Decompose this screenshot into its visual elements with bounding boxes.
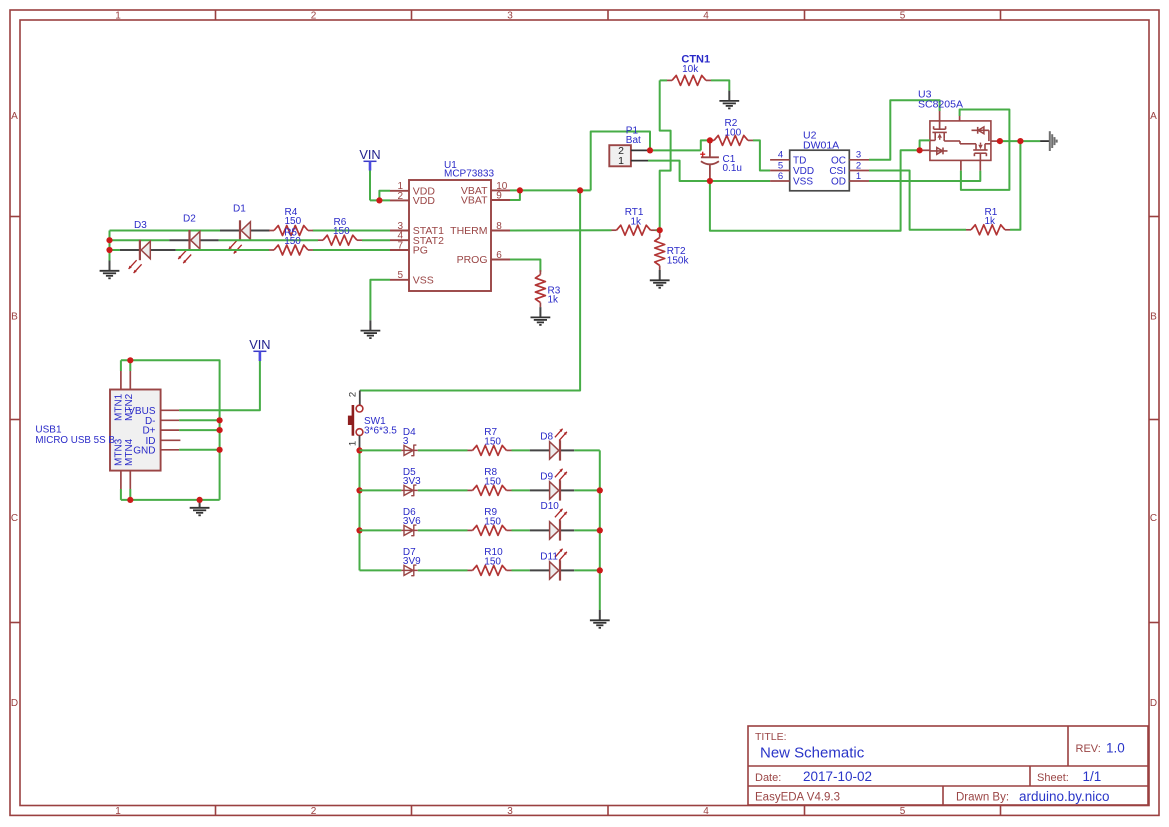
svg-text:MCP73833: MCP73833	[444, 168, 494, 179]
wire row D6 b	[418, 529, 468, 531]
wire VBUS	[179, 361, 260, 410]
svg-text:arduino.by.nico: arduino.by.nico	[1019, 789, 1110, 804]
diode D1 leads	[220, 230, 270, 232]
junction dot U3 out a	[997, 138, 1003, 144]
junction dot VBAT a	[517, 187, 523, 193]
svg-text:A: A	[1150, 111, 1157, 122]
wire row D7 c	[512, 569, 530, 571]
svg-text:D2: D2	[183, 214, 196, 225]
wire CTN1 right	[711, 80, 729, 90]
svg-text:PG: PG	[413, 245, 428, 257]
wire VBAT to SW1	[360, 190, 580, 390]
svg-text:C: C	[1150, 513, 1157, 524]
svg-text:D8: D8	[540, 432, 553, 443]
svg-text:A: A	[11, 111, 18, 122]
svg-text:2017-10-02: 2017-10-02	[803, 769, 872, 784]
wire D+	[179, 429, 220, 431]
wire STAT1 row	[110, 230, 391, 232]
svg-text:1: 1	[856, 171, 861, 182]
diode D2 leads	[169, 239, 218, 241]
resistor CTN1	[667, 75, 711, 85]
wire VIN to U1 VDD	[370, 171, 390, 201]
svg-text:5: 5	[900, 806, 906, 817]
svg-text:2: 2	[397, 191, 403, 202]
wire SW1 rail	[359, 448, 361, 571]
wire row D4 a	[360, 449, 402, 451]
wire CTN1 lead a	[660, 79, 667, 81]
junction dot GND	[217, 447, 223, 453]
diode D6 (zener)	[401, 525, 417, 536]
svg-text:2: 2	[348, 392, 359, 397]
junction dot C1 bottom	[707, 178, 713, 184]
diode D9 leads	[530, 489, 575, 491]
svg-text:B: B	[11, 311, 18, 322]
label R10	[484, 547, 503, 567]
svg-text:5: 5	[397, 270, 403, 281]
wire row D7 b	[418, 569, 468, 571]
wire U3 out	[1000, 140, 1040, 142]
thermistor RT2	[655, 233, 665, 270]
junction dot rail PG	[106, 247, 112, 253]
junction dot VBAT b	[577, 187, 583, 193]
svg-text:150: 150	[284, 236, 301, 247]
svg-text:D3: D3	[134, 220, 147, 231]
diode D8 leads	[530, 449, 575, 451]
wire STAT2 row	[110, 239, 391, 241]
svg-text:150: 150	[333, 226, 350, 237]
svg-text:D11: D11	[540, 552, 558, 563]
svg-text:150k: 150k	[667, 255, 690, 266]
svg-text:PROG: PROG	[457, 254, 488, 266]
svg-text:VIN: VIN	[359, 147, 380, 162]
svg-text:VDD: VDD	[793, 166, 814, 177]
wire row D5 a	[360, 489, 402, 491]
label RT2	[667, 246, 690, 266]
wire U3 top loop	[960, 110, 1010, 190]
svg-text:100: 100	[725, 127, 742, 138]
svg-text:3V6: 3V6	[403, 516, 421, 527]
junction dot R2 left	[707, 137, 713, 143]
diode D10 (LED)	[550, 509, 567, 541]
junction dot rail D6	[356, 527, 362, 533]
svg-text:2: 2	[311, 806, 317, 817]
wire U3 left pins	[920, 140, 930, 150]
ground R3	[531, 307, 551, 325]
label SW1	[364, 416, 397, 436]
ground USB	[190, 500, 210, 515]
diode D8 (LED)	[550, 429, 567, 461]
label D8	[540, 432, 553, 443]
junction dot U3 out b	[1017, 138, 1023, 144]
resistor R9	[468, 525, 512, 535]
junction dot rail D4	[356, 447, 362, 453]
svg-text:7: 7	[397, 240, 403, 251]
ground RT2	[650, 270, 670, 288]
label D5	[403, 467, 421, 487]
label D4	[403, 427, 416, 447]
diode D5 (zener)	[401, 485, 417, 496]
wire PROG	[510, 260, 540, 272]
svg-text:OC: OC	[831, 155, 846, 166]
wire P1.1	[648, 161, 770, 181]
wire D-	[179, 419, 220, 421]
wire USB top	[121, 360, 220, 500]
wire row D6 a	[360, 529, 402, 531]
svg-text:Date:: Date:	[755, 772, 781, 784]
diode D10 leads	[530, 529, 575, 531]
junction dot D-	[217, 417, 223, 423]
wire row D4 c	[512, 449, 530, 451]
svg-text:150: 150	[484, 476, 501, 487]
wire THERM b	[656, 229, 660, 231]
net flag VIN (U1)	[359, 147, 380, 171]
ground U1 VSS	[361, 320, 381, 338]
svg-text:MICRO USB 5S B: MICRO USB 5S B	[35, 435, 115, 446]
svg-text:Bat: Bat	[626, 135, 641, 146]
svg-text:6: 6	[496, 250, 502, 261]
wire CTN1 left	[660, 80, 671, 230]
resistor R8	[468, 485, 512, 495]
label R6	[333, 217, 350, 237]
resistor RT1	[612, 225, 656, 235]
diode D11 leads	[530, 569, 575, 571]
svg-text:1.0: 1.0	[1106, 741, 1125, 756]
wire row D4 b	[418, 449, 468, 451]
wire row D6 c	[512, 529, 530, 531]
junction dot USB gnd	[197, 497, 203, 503]
svg-text:VBAT: VBAT	[461, 195, 488, 207]
svg-text:1/1: 1/1	[1083, 769, 1102, 784]
junction dot VDD	[376, 197, 382, 203]
junction dot U3 left	[917, 147, 923, 153]
IC U2 DW01A	[770, 129, 869, 190]
svg-text:VSS: VSS	[793, 177, 813, 188]
svg-text:B: B	[1150, 311, 1157, 322]
wire right LED rail	[599, 450, 601, 610]
label RT1	[625, 207, 644, 227]
svg-text:SC8205A: SC8205A	[918, 99, 963, 111]
label D10	[541, 501, 560, 512]
wire USB bottom	[121, 489, 220, 500]
resistor R2	[709, 135, 753, 145]
diode D7 (zener)	[401, 565, 417, 576]
wire row D5 d	[574, 489, 600, 491]
wire row D7 d	[574, 569, 600, 571]
wire row D6 d	[574, 529, 600, 531]
diode D3 (LED)	[129, 240, 151, 273]
svg-text:VSS: VSS	[413, 274, 434, 286]
svg-text:8: 8	[496, 221, 502, 232]
svg-text:1: 1	[618, 155, 624, 167]
svg-text:3*6*3.5: 3*6*3.5	[364, 425, 397, 436]
svg-text:TITLE:: TITLE:	[755, 731, 787, 743]
svg-text:5: 5	[900, 11, 906, 22]
svg-text:D: D	[1150, 698, 1157, 709]
svg-text:3: 3	[856, 150, 861, 161]
svg-text:C: C	[11, 513, 18, 524]
net flag VIN (USB)	[249, 337, 270, 361]
dual MOSFET U3 SC8205A	[918, 88, 1000, 170]
wire PG row	[110, 249, 391, 251]
junction dot D+	[217, 427, 223, 433]
diode D4 (zener)	[401, 445, 417, 456]
svg-text:1k: 1k	[631, 216, 643, 227]
label R3	[548, 286, 561, 306]
junction dot rrail D9	[597, 487, 603, 493]
wire THERM a	[510, 229, 612, 231]
diode D11 (LED)	[550, 549, 567, 581]
resistor R3	[535, 270, 545, 307]
svg-text:REV:: REV:	[1076, 743, 1101, 755]
wire row D7 a	[360, 569, 402, 571]
wire OC to U3 gate	[869, 100, 940, 160]
label R4	[285, 207, 302, 227]
svg-text:DW01A: DW01A	[803, 139, 839, 151]
junction dot USB bottom	[127, 497, 133, 503]
resistor R6	[318, 235, 362, 245]
junction dot RT junction	[657, 227, 663, 233]
svg-text:Sheet:: Sheet:	[1037, 772, 1069, 784]
svg-text:4: 4	[703, 11, 709, 22]
svg-text:EasyEDA V4.9.3: EasyEDA V4.9.3	[755, 792, 840, 804]
svg-text:THERM: THERM	[450, 225, 487, 237]
wire VSS	[370, 280, 390, 321]
svg-text:4: 4	[703, 806, 709, 817]
label R5	[284, 228, 301, 247]
svg-text:3V9: 3V9	[403, 556, 421, 567]
svg-text:0.1u: 0.1u	[723, 163, 742, 174]
label R8	[484, 467, 501, 487]
svg-text:5: 5	[778, 160, 783, 171]
wire OD to U3 gate2	[869, 171, 980, 181]
svg-text:1: 1	[348, 441, 359, 446]
junction dot rrail D11	[597, 567, 603, 573]
resistor R4	[269, 226, 313, 236]
svg-text:VDD: VDD	[413, 195, 436, 207]
svg-text:6: 6	[778, 171, 783, 182]
diode D3 leads	[120, 249, 176, 251]
wire pin9 jog	[510, 190, 520, 200]
svg-text:1: 1	[115, 11, 121, 22]
svg-text:TD: TD	[793, 155, 806, 166]
diode D1 (LED)	[229, 220, 251, 253]
wire row D5 b	[418, 489, 468, 491]
label D1	[233, 204, 246, 215]
svg-text:CSI: CSI	[829, 166, 846, 177]
ground LED rail	[590, 610, 610, 628]
label D3	[134, 220, 147, 231]
label R1	[985, 207, 998, 227]
wire B- to U3	[710, 150, 920, 231]
svg-text:New Schematic: New Schematic	[760, 745, 865, 762]
ground flag output	[1040, 131, 1057, 151]
diode D9 (LED)	[550, 469, 567, 501]
svg-text:1k: 1k	[985, 216, 997, 227]
connector USB1 MICRO USB 5S B	[35, 371, 180, 489]
svg-text:2: 2	[311, 11, 317, 22]
svg-text:D10: D10	[541, 501, 560, 512]
wire P1.2	[648, 140, 707, 150]
svg-text:2: 2	[856, 160, 861, 171]
wire row D5 c	[512, 489, 530, 491]
label C1	[723, 154, 742, 174]
resistor R5	[269, 245, 313, 255]
wire left LED rail	[109, 231, 111, 261]
resistor R7	[468, 445, 512, 455]
label D2	[183, 214, 196, 225]
svg-text:VIN: VIN	[249, 337, 270, 352]
wire VBAT to P1	[591, 132, 650, 191]
svg-text:D9: D9	[540, 472, 553, 483]
junction dot rail D5	[356, 487, 362, 493]
svg-text:150: 150	[285, 216, 302, 227]
resistor R1	[966, 225, 1010, 235]
op-amp U1 MCP73833	[390, 160, 510, 291]
wire VBAT	[510, 189, 591, 191]
wire GND	[179, 449, 220, 451]
svg-text:150: 150	[484, 516, 501, 527]
label D9	[540, 472, 553, 483]
label R7	[484, 427, 501, 447]
junction dot rrail D10	[597, 527, 603, 533]
junction dot rail STAT2	[106, 237, 112, 243]
svg-text:MTN3: MTN3	[114, 438, 125, 466]
diode D2 (LED)	[178, 230, 200, 263]
capacitor C1	[700, 140, 719, 181]
svg-text:3: 3	[507, 11, 513, 22]
switch SW1	[348, 391, 363, 448]
junction dot USB top	[127, 357, 133, 363]
connector P1 Bat	[609, 126, 648, 167]
label R9	[484, 507, 501, 527]
svg-text:3: 3	[403, 436, 409, 447]
wire U1 pin1 jog	[379, 191, 390, 201]
wire row D4 d	[574, 449, 600, 451]
wire R1 to out	[1010, 141, 1020, 230]
junction dot P1.2	[647, 147, 653, 153]
label D6	[403, 507, 421, 527]
title block	[748, 726, 1148, 805]
label D11	[540, 552, 558, 563]
svg-text:150: 150	[484, 556, 501, 567]
label CTN1	[681, 54, 710, 76]
resistor R10	[468, 565, 512, 575]
svg-text:Drawn By:: Drawn By:	[956, 792, 1009, 804]
wire CSI to R1	[869, 171, 966, 230]
svg-text:4: 4	[778, 150, 783, 161]
svg-text:GND: GND	[133, 445, 155, 456]
label R2	[725, 118, 742, 138]
ground left LED rail	[100, 261, 120, 279]
svg-text:1: 1	[115, 806, 121, 817]
svg-text:3V3: 3V3	[403, 476, 421, 487]
svg-text:9: 9	[496, 190, 502, 201]
svg-text:D: D	[11, 698, 18, 709]
label D7	[403, 547, 421, 567]
svg-text:3: 3	[507, 806, 513, 817]
svg-text:MTN1: MTN1	[114, 393, 125, 421]
svg-text:D1: D1	[233, 204, 246, 215]
svg-text:10k: 10k	[682, 64, 699, 75]
ground CTN1	[719, 91, 739, 109]
svg-text:1k: 1k	[548, 295, 560, 306]
svg-text:OD: OD	[831, 177, 846, 188]
svg-text:150: 150	[484, 436, 501, 447]
wire R2 to U2 VDD	[753, 140, 770, 170]
